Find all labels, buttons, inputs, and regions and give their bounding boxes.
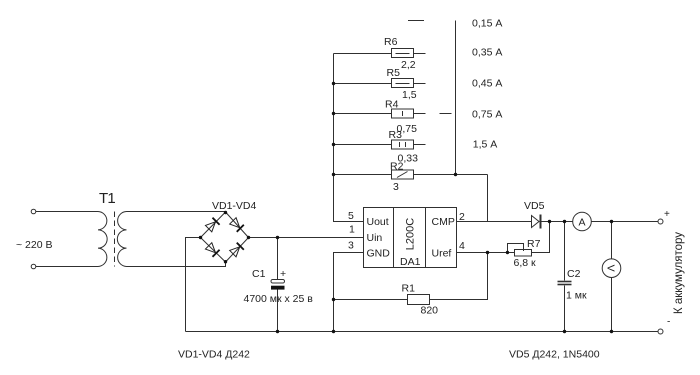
svg-text:К аккумулятору: К аккумулятору — [673, 232, 685, 314]
wire primary top — [36, 211, 98, 213]
svg-text:2: 2 — [459, 211, 465, 223]
wire secondary bottom — [127, 262, 226, 267]
svg-text:L200C: L200C — [405, 218, 417, 250]
svg-text:-: - — [667, 317, 670, 328]
output terminal plus — [658, 219, 663, 224]
svg-text:4700 мк x 25 в: 4700 мк x 25 в — [244, 293, 314, 305]
svg-text:2,2: 2,2 — [401, 59, 416, 71]
svg-text:6,8 к: 6,8 к — [514, 257, 537, 269]
svg-text:Uout: Uout — [367, 216, 389, 228]
terminal ~220V bottom — [31, 264, 36, 269]
wire primary bottom — [36, 266, 98, 268]
svg-text:VD1-VD4 Д242: VD1-VD4 Д242 — [178, 349, 250, 361]
bridge edge VD1 top-left — [201, 212, 226, 238]
svg-text:V: V — [605, 265, 617, 272]
svg-text:0,75 А: 0,75 А — [472, 109, 502, 121]
svg-text:3: 3 — [348, 240, 354, 252]
svg-text:R2: R2 — [390, 161, 404, 173]
resistor R5 row — [334, 83, 392, 85]
svg-text:VD1-VD4: VD1-VD4 — [212, 200, 257, 212]
svg-text:C2: C2 — [567, 268, 581, 280]
junction dots — [332, 82, 335, 85]
svg-text:R3: R3 — [389, 129, 403, 141]
svg-text:1 мк: 1 мк — [566, 290, 587, 302]
svg-text:Uref: Uref — [432, 248, 452, 260]
capacitor C2 — [564, 222, 566, 281]
svg-text:~ 220 В: ~ 220 В — [16, 239, 53, 251]
svg-text:1: 1 — [349, 224, 355, 236]
bridge diode VD3 symbol — [205, 242, 219, 256]
capacitor C1 positive plate — [271, 280, 285, 284]
svg-text:0,45 А: 0,45 А — [472, 77, 502, 89]
svg-text:R1: R1 — [402, 283, 416, 295]
transformer T1 primary winding — [98, 212, 107, 267]
svg-text:DA1: DA1 — [400, 256, 421, 268]
bridge edge VD4 bottom-right — [226, 238, 249, 263]
wire bridge plus to Uin — [249, 237, 364, 239]
resistor R7 trimmer — [515, 250, 532, 257]
ammeter A — [573, 212, 592, 231]
svg-text:C1: C1 — [252, 268, 266, 280]
svg-text:1,5 А: 1,5 А — [473, 139, 498, 151]
svg-text:T1: T1 — [99, 190, 115, 207]
svg-text:4: 4 — [459, 240, 465, 252]
resistor R3 row — [334, 144, 392, 146]
svg-text:GND: GND — [367, 248, 391, 260]
switch common bar — [455, 21, 457, 175]
capacitor C1 negative plate — [271, 286, 285, 290]
svg-text:VD5: VD5 — [524, 200, 545, 212]
bridge diode VD2 symbol — [229, 217, 243, 231]
svg-text:VD5 Д242, 1N5400: VD5 Д242, 1N5400 — [509, 349, 600, 361]
svg-text:R6: R6 — [384, 36, 398, 48]
switch wiper dash — [440, 113, 452, 115]
capacitor C1 wires — [277, 238, 279, 280]
bridge diode VD4 symbol — [229, 243, 243, 257]
bridge diode VD1 symbol — [205, 218, 219, 232]
svg-text:R7: R7 — [527, 238, 541, 250]
diode VD5 — [532, 216, 540, 228]
wire bridge minus — [186, 238, 201, 332]
pin2 wire CMP / top rail — [457, 221, 532, 223]
resistor R1 row — [334, 299, 408, 301]
IC DA1 box — [364, 208, 457, 268]
svg-text:+: + — [664, 209, 670, 220]
pin4 wire Uref — [457, 252, 515, 254]
svg-text:1,5: 1,5 — [402, 89, 417, 101]
switch top contact dash — [408, 20, 424, 22]
svg-text:CMP: CMP — [432, 216, 455, 228]
wire secondary top — [127, 211, 226, 213]
wire switch to CMP — [487, 175, 489, 222]
transformer T1 secondary winding — [117, 212, 126, 267]
left resistor bus — [334, 54, 364, 222]
terminal ~220V top — [31, 209, 36, 214]
svg-text:R5: R5 — [387, 67, 401, 79]
svg-text:A: A — [578, 216, 585, 228]
transformer core — [114, 212, 116, 267]
svg-text:R4: R4 — [385, 99, 399, 111]
resistor R6 row — [334, 53, 392, 55]
svg-text:820: 820 — [421, 305, 439, 317]
svg-text:0,15 А: 0,15 А — [472, 18, 502, 30]
svg-text:5: 5 — [348, 210, 354, 222]
voltmeter V branch — [611, 222, 613, 259]
pin3 wire GND — [334, 253, 364, 332]
resistor R4 row — [334, 113, 392, 115]
bridge edge VD3 bottom-left — [201, 238, 226, 263]
resistor R2 row — [334, 174, 392, 176]
voltmeter V — [602, 259, 621, 278]
svg-text:+: + — [280, 268, 286, 280]
bottom rail — [186, 331, 659, 333]
svg-text:3: 3 — [393, 181, 399, 193]
svg-text:0,35 А: 0,35 А — [472, 47, 502, 59]
output terminal minus — [658, 329, 663, 334]
bridge edge VD2 top-right — [226, 212, 249, 238]
svg-text:Uin: Uin — [367, 232, 383, 244]
